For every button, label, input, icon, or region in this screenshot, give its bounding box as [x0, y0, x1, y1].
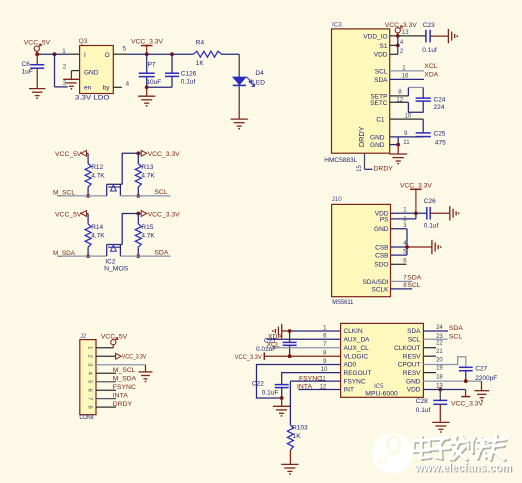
- svg-text:www.elecfans.com: www.elecfans.com: [414, 461, 512, 475]
- svg-text:C26: C26: [424, 198, 436, 205]
- capacitor C27 2200pF: [459, 366, 497, 382]
- svg-text:SCL: SCL: [154, 189, 167, 196]
- svg-text:C6: C6: [22, 61, 31, 68]
- svg-text:Q3: Q3: [79, 38, 88, 45]
- regulator U Q3 3.3V LDO: [75, 38, 113, 101]
- svg-text:GND: GND: [370, 142, 385, 149]
- svg-text:HMC5883L: HMC5883L: [324, 157, 357, 164]
- svg-text:LED: LED: [252, 79, 265, 86]
- junction: [35, 52, 39, 56]
- pin 1 CLKIN: [282, 326, 341, 332]
- pin 2 PS: [391, 213, 416, 223]
- svg-text:FSYNC: FSYNC: [344, 378, 366, 385]
- svg-text:SDA/SDI: SDA/SDI: [362, 279, 388, 286]
- svg-text:VDD: VDD: [374, 52, 388, 59]
- svg-text:1K: 1K: [196, 60, 205, 67]
- pin 1 wire: [96, 347, 113, 349]
- pin 23 SCL net SCL: [423, 333, 462, 340]
- resistor R12 4.7K: [85, 153, 105, 196]
- svg-text:C1: C1: [376, 117, 385, 124]
- ground: [450, 206, 460, 220]
- svg-text:4.7K: 4.7K: [91, 172, 105, 179]
- svg-text:SCL: SCL: [449, 333, 462, 340]
- watermark text www.elecfans.com: [414, 461, 513, 476]
- pin 9 AD0: [257, 359, 341, 398]
- svg-text:IC2: IC2: [105, 259, 115, 266]
- svg-text:11: 11: [403, 140, 410, 146]
- svg-text:C23: C23: [423, 22, 435, 29]
- IC U J10 MS5611: [332, 196, 391, 306]
- svg-text:M_SCL: M_SCL: [113, 367, 136, 374]
- pin 1 VDD: [391, 208, 427, 214]
- power symbol VCC_5V: [55, 150, 88, 158]
- junction: [464, 379, 468, 383]
- junction: [145, 85, 149, 89]
- svg-text:475: 475: [435, 139, 446, 146]
- svg-text:VDD: VDD: [407, 387, 421, 394]
- svg-text:12: 12: [396, 97, 403, 103]
- power symbol VCC_3.3V: [131, 39, 164, 55]
- svg-text:GND: GND: [406, 378, 421, 385]
- pin 12 INT net INTA: [297, 384, 341, 391]
- svg-text:R12: R12: [91, 164, 103, 171]
- svg-text:8: 8: [87, 406, 93, 409]
- svg-text:SCLK: SCLK: [372, 286, 390, 293]
- svg-text:19: 19: [436, 366, 443, 372]
- ground: [432, 422, 449, 433]
- wire: [222, 54, 240, 77]
- junction: [396, 34, 400, 38]
- svg-text:SDA: SDA: [407, 274, 421, 281]
- svg-text:7: 7: [87, 397, 93, 400]
- svg-text:C24: C24: [434, 96, 446, 103]
- pin 11 GND: [390, 137, 410, 146]
- capacitor C23 0.1uf: [422, 22, 448, 54]
- capacitor C28 0.1uf: [416, 390, 448, 422]
- svg-text:M_SDA: M_SDA: [53, 250, 75, 257]
- pin 8 SETP: [390, 87, 424, 98]
- svg-text:18: 18: [436, 375, 443, 381]
- pin 15 DRDY net DRDY: [357, 153, 393, 172]
- svg-text:D4: D4: [255, 70, 264, 77]
- transistor N-MOSFET: [107, 153, 139, 196]
- ground: [29, 89, 45, 100]
- svg-text:0.1uf: 0.1uf: [416, 407, 431, 414]
- capacitor C24 224: [416, 96, 446, 110]
- power symbol VCC_5V: [55, 211, 88, 219]
- svg-text:R4: R4: [196, 40, 205, 47]
- svg-text:4.7K: 4.7K: [141, 172, 155, 179]
- junction: [396, 44, 400, 48]
- power symbol VCC_5V: [24, 40, 51, 55]
- wire: [397, 36, 399, 54]
- pin 7 SDA/SDI net SDA: [391, 274, 422, 281]
- label IC2 N_MOS: [104, 259, 129, 273]
- resistor R4 1K: [193, 40, 221, 67]
- svg-text:IC3: IC3: [332, 22, 342, 29]
- resistor R14 4.7K: [85, 214, 105, 257]
- pin 13 VDD: [423, 384, 465, 390]
- svg-text:INT: INT: [344, 387, 355, 394]
- pin 3 wire: [96, 365, 146, 372]
- ground: [231, 119, 248, 129]
- svg-text:GND: GND: [370, 134, 385, 141]
- svg-text:CLKIN: CLKIN: [344, 328, 363, 335]
- pin 8 SCLK net SCL: [391, 282, 421, 289]
- resistor R13 4.7K: [135, 153, 155, 196]
- power symbol VCC_3.3V: [116, 353, 147, 360]
- svg-text:O: O: [105, 52, 110, 59]
- svg-text:CON8: CON8: [80, 414, 94, 421]
- junction: [86, 254, 90, 258]
- svg-text:MPU-6000: MPU-6000: [365, 391, 398, 398]
- svg-text:DRDY: DRDY: [357, 126, 366, 147]
- svg-text:C126: C126: [181, 70, 197, 77]
- wire net M_SCL: [53, 190, 107, 197]
- svg-text:1: 1: [87, 346, 93, 349]
- power symbol VCC_3.3V: [400, 183, 433, 214]
- svg-text:5: 5: [123, 45, 127, 52]
- svg-text:CSB: CSB: [375, 244, 388, 251]
- svg-text:FSYNC: FSYNC: [113, 384, 136, 391]
- power symbol VCC_3.3V: [136, 211, 180, 219]
- svg-text:GND: GND: [84, 70, 99, 77]
- connector J2 CON8: [80, 334, 97, 421]
- svg-text:13: 13: [402, 30, 409, 36]
- svg-text:N_MOS: N_MOS: [104, 266, 129, 273]
- svg-text:3: 3: [87, 363, 93, 366]
- svg-text:4: 4: [126, 80, 130, 87]
- pin 6 wire net FSYNC: [96, 384, 136, 391]
- svg-text:6: 6: [87, 389, 93, 392]
- capacitor C26 0.1uf: [424, 198, 450, 230]
- svg-text:0.1uF: 0.1uF: [262, 390, 279, 397]
- svg-text:VCC_3.3V: VCC_3.3V: [148, 211, 181, 218]
- svg-text:224: 224: [434, 104, 445, 111]
- svg-text:1K: 1K: [293, 433, 302, 440]
- svg-text:DRDY: DRDY: [113, 401, 133, 408]
- svg-text:VDD_IO: VDD_IO: [363, 33, 387, 40]
- svg-text:CPOUT: CPOUT: [398, 362, 421, 369]
- svg-text:VCC_3.3V: VCC_3.3V: [235, 354, 262, 361]
- svg-text:4.7K: 4.7K: [141, 233, 155, 240]
- wire net SDA: [120, 249, 170, 256]
- svg-text:INTA: INTA: [113, 392, 128, 399]
- pin 13 VDD_IO: [390, 30, 426, 36]
- pin 21 RESV: [423, 349, 443, 356]
- watermark text dianzifashaoyou: [413, 434, 508, 461]
- power symbol VCC_3.3V: [136, 150, 180, 158]
- pin 3: [63, 63, 67, 70]
- svg-text:VCC_3.3V: VCC_3.3V: [451, 401, 484, 408]
- svg-text:2: 2: [87, 355, 93, 358]
- junction: [145, 52, 149, 56]
- svg-text:0.1uf: 0.1uf: [424, 223, 439, 230]
- wire net SCL: [120, 189, 170, 196]
- IC U IC3 HMC5883L: [324, 22, 389, 164]
- watermark logo circle: [372, 433, 412, 473]
- svg-text:SDA: SDA: [374, 77, 388, 84]
- capacitor C126: [147, 54, 197, 87]
- pin 8 VLOGIC: [264, 351, 340, 357]
- pin 7 wire net INTA: [96, 392, 128, 399]
- capacitor P7: [139, 54, 162, 87]
- pin 4 wire net M_SCL: [96, 367, 136, 374]
- svg-text:5: 5: [87, 380, 93, 383]
- svg-text:10: 10: [321, 367, 328, 373]
- junction: [136, 194, 140, 198]
- wire: [128, 53, 194, 55]
- svg-text:15: 15: [357, 165, 363, 172]
- svg-text:24: 24: [436, 325, 443, 331]
- pin 5: [113, 45, 127, 54]
- ground: [63, 79, 79, 90]
- svg-text:I: I: [84, 52, 86, 59]
- ground: [474, 391, 489, 401]
- svg-text:IC5: IC5: [374, 384, 384, 390]
- svg-text:C27: C27: [475, 366, 487, 373]
- svg-text:20: 20: [436, 358, 443, 364]
- svg-text:SCL: SCL: [407, 282, 420, 289]
- svg-text:M_SDA: M_SDA: [113, 375, 137, 382]
- svg-text:16: 16: [402, 74, 409, 80]
- svg-text:10uF: 10uF: [146, 79, 161, 86]
- svg-text:en: en: [84, 85, 92, 92]
- svg-text:23: 23: [436, 334, 443, 340]
- pin 11 FSYNC net FSYNC: [290, 375, 340, 425]
- IC U IC5 MPU-6000: [341, 323, 424, 397]
- pin 10 C1: [390, 113, 424, 132]
- pin 2 wire: [96, 355, 116, 357]
- svg-text:CLKOUT: CLKOUT: [394, 345, 420, 352]
- svg-text:0.1uf: 0.1uf: [422, 47, 437, 54]
- svg-text:SETC: SETC: [370, 100, 388, 107]
- svg-text:21: 21: [436, 349, 443, 355]
- svg-text:VCC_3.3V: VCC_3.3V: [131, 39, 164, 46]
- pin 3 GND: [391, 223, 408, 255]
- svg-text:R103: R103: [292, 424, 308, 431]
- pin 9 GND: [390, 131, 424, 137]
- pin 18 GND: [423, 375, 481, 391]
- svg-text:XCL: XCL: [424, 63, 437, 70]
- wire: [55, 54, 68, 87]
- svg-text:SDO: SDO: [374, 262, 388, 269]
- svg-text:SCL: SCL: [408, 336, 421, 343]
- svg-text:AD0: AD0: [344, 362, 357, 369]
- wire: [238, 85, 240, 119]
- pin 4: [113, 80, 129, 87]
- svg-text:DRDY: DRDY: [374, 166, 394, 173]
- svg-text:4.7K: 4.7K: [91, 233, 105, 240]
- pin 7 AUX_CL net XCL: [267, 342, 341, 349]
- pin 4 CSB: [391, 241, 432, 247]
- svg-text:PS: PS: [380, 217, 389, 224]
- pin 6 SDO: [391, 259, 408, 265]
- svg-text:VCC_3.3V: VCC_3.3V: [122, 353, 147, 360]
- capacitor C6: [22, 54, 45, 88]
- svg-text:C22: C22: [252, 381, 264, 388]
- pin 1 SCL net XCL: [390, 63, 438, 72]
- ground: [273, 398, 290, 417]
- svg-text:J2: J2: [80, 334, 87, 340]
- svg-text:3.3V LDO: 3.3V LDO: [75, 95, 110, 102]
- ground: [138, 87, 155, 106]
- capacitor C25 475: [416, 131, 447, 147]
- svg-text:C28: C28: [416, 398, 428, 405]
- junction: [396, 143, 400, 147]
- wire: [37, 53, 68, 55]
- pin 2 GND: [63, 71, 80, 88]
- pin 6 AUX_DA net XDA: [267, 333, 341, 340]
- capacitor C21 0.01uF: [256, 331, 297, 356]
- svg-text:1uF: 1uF: [22, 69, 33, 76]
- svg-text:VCC_3.3V: VCC_3.3V: [385, 22, 418, 29]
- wire net M_SDA: [53, 250, 107, 257]
- ground: [281, 464, 298, 475]
- svg-text:11: 11: [320, 376, 327, 382]
- svg-text:VCC_5V: VCC_5V: [55, 151, 82, 158]
- svg-text:XDA: XDA: [424, 72, 438, 79]
- power symbol VCC_5V: [101, 334, 128, 348]
- svg-text:VCC_5V: VCC_5V: [55, 211, 82, 218]
- svg-text:CSB: CSB: [375, 253, 388, 260]
- svg-text:R14: R14: [91, 224, 103, 231]
- resistor R103 1K: [287, 424, 308, 464]
- pin 2 VDD: [390, 49, 404, 55]
- ground: [432, 240, 442, 254]
- svg-text:XDA: XDA: [268, 333, 282, 340]
- svg-text:M_SCL: M_SCL: [53, 190, 75, 197]
- pin 12 SETC: [390, 97, 424, 112]
- svg-text:R15: R15: [141, 224, 153, 231]
- svg-text:SCL: SCL: [375, 68, 388, 75]
- pin 5 CSB: [391, 249, 408, 255]
- pin 8 wire net DRDY: [96, 401, 133, 408]
- junction: [288, 329, 292, 333]
- capacitor C22 0.1uF: [252, 381, 289, 398]
- LED D4: [233, 70, 265, 86]
- svg-text:AUX_CL: AUX_CL: [344, 345, 370, 352]
- pin 22 CLKOUT: [423, 340, 443, 347]
- svg-text:10: 10: [405, 113, 412, 119]
- power symbol VCC_3.3V: [385, 22, 418, 36]
- junction: [288, 354, 292, 358]
- svg-text:0.1uf: 0.1uf: [181, 79, 196, 86]
- svg-text:S1: S1: [380, 43, 388, 50]
- svg-text:XCL: XCL: [267, 342, 280, 349]
- power symbol VCC_3.3V: [451, 390, 484, 408]
- svg-text:22: 22: [436, 340, 443, 346]
- svg-text:SDA: SDA: [407, 328, 421, 335]
- pin 20 CPOUT: [423, 357, 465, 367]
- svg-text:INTA: INTA: [297, 384, 312, 391]
- resistor R15 4.7K: [135, 214, 155, 257]
- junction: [280, 396, 284, 400]
- svg-text:R13: R13: [141, 164, 153, 171]
- svg-text:AUX_DA: AUX_DA: [344, 336, 371, 343]
- pin 24 SDA net SDA: [423, 325, 463, 332]
- ground: [448, 29, 458, 43]
- svg-text:3: 3: [63, 80, 67, 87]
- svg-text:P7: P7: [148, 62, 156, 69]
- svg-text:1: 1: [62, 48, 66, 55]
- svg-text:RESV: RESV: [403, 370, 421, 377]
- svg-text:REGOUT: REGOUT: [344, 370, 372, 377]
- power symbol VCC_3.3V: [235, 352, 264, 361]
- svg-text:C25: C25: [434, 131, 446, 138]
- pin 1: [62, 48, 79, 55]
- svg-text:SDA: SDA: [154, 249, 168, 256]
- pin 16 SDA net XDA: [390, 72, 439, 80]
- pin 10 REGOUT: [282, 367, 341, 384]
- pin 5 wire net M_SDA: [96, 375, 137, 382]
- pin 4 S1: [390, 40, 404, 46]
- junction: [438, 388, 442, 392]
- junction: [170, 52, 174, 56]
- svg-text:VCC_3.3V: VCC_3.3V: [148, 151, 181, 158]
- svg-text:by: by: [103, 85, 111, 92]
- ground: [139, 372, 153, 383]
- junction: [86, 194, 90, 198]
- ground: [272, 324, 282, 338]
- junction: [414, 211, 418, 215]
- pin 19 RESV: [423, 366, 443, 373]
- svg-text:GND: GND: [374, 226, 389, 233]
- svg-text:SDA: SDA: [449, 325, 463, 332]
- junction: [405, 245, 409, 249]
- svg-text:MS5611: MS5611: [332, 299, 353, 306]
- transistor N-MOSFET: [107, 214, 139, 257]
- svg-text:12: 12: [320, 385, 327, 391]
- svg-text:J10: J10: [332, 196, 343, 203]
- svg-text:RESV: RESV: [403, 353, 421, 360]
- ground: [389, 145, 407, 165]
- svg-text:VLOGIC: VLOGIC: [344, 353, 369, 360]
- junction: [136, 254, 140, 258]
- svg-text:2: 2: [63, 63, 67, 70]
- junction: [53, 52, 57, 56]
